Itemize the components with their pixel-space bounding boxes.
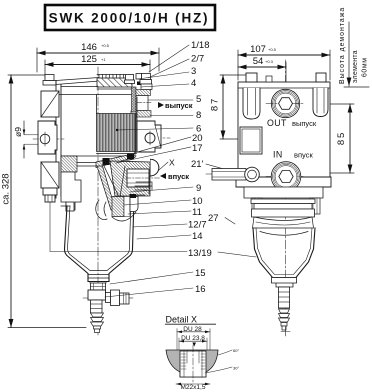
leader 15 bbox=[110, 272, 193, 284]
svg-text:Высота демонтажа: Высота демонтажа bbox=[339, 7, 346, 84]
leader 16 bbox=[105, 288, 193, 297]
svg-text:1/18: 1/18 bbox=[191, 40, 210, 51]
centerline bracket hole bbox=[33, 138, 64, 140]
label plate bbox=[240, 127, 262, 154]
svg-text:21': 21' bbox=[191, 159, 204, 170]
right bolt cartridge bbox=[313, 73, 328, 117]
svg-text:SWK 2000/10/H (HZ): SWK 2000/10/H (HZ) bbox=[49, 10, 210, 25]
leader 4 bbox=[141, 84, 189, 87]
right top bolt bbox=[140, 74, 152, 85]
svg-text:+0.5: +0.5 bbox=[101, 43, 110, 48]
outlet boss bbox=[132, 87, 152, 117]
svg-text:3: 3 bbox=[191, 66, 196, 77]
lower bolt bbox=[43, 188, 57, 202]
svg-text:ø9: ø9 bbox=[13, 127, 23, 137]
svg-text:13/19: 13/19 bbox=[188, 248, 212, 259]
float hooks bbox=[96, 200, 107, 220]
head body bbox=[238, 82, 330, 177]
svg-text:впуск: впуск bbox=[294, 151, 313, 160]
leader 20 bbox=[134, 137, 191, 153]
drain side outlet bbox=[106, 290, 130, 306]
dim 60mm removal bbox=[344, 22, 369, 87]
bowl inner right bbox=[256, 228, 312, 275]
svg-text:11: 11 bbox=[192, 207, 202, 218]
svg-text:выпуск: выпуск bbox=[292, 119, 317, 128]
svg-text:17: 17 bbox=[192, 143, 203, 154]
inner cup bbox=[112, 197, 138, 222]
bowl inner bbox=[68, 198, 132, 271]
svg-text:85: 85 bbox=[336, 131, 347, 145]
seal black u bbox=[130, 194, 137, 198]
leader 3 bbox=[138, 72, 189, 79]
drain valve upper stem bbox=[91, 283, 106, 290]
svg-text:10: 10 bbox=[192, 196, 203, 207]
centerline vertical bbox=[97, 67, 99, 336]
cover right cap bbox=[141, 84, 152, 90]
dim M22 bbox=[176, 383, 210, 385]
top left bolt bbox=[43, 75, 56, 86]
wall plate bbox=[38, 121, 57, 154]
OUT port bbox=[266, 89, 305, 117]
outlet label left bbox=[158, 101, 193, 110]
leader 2/7 bbox=[148, 59, 189, 78]
svg-text:8: 8 bbox=[196, 110, 201, 121]
body outline left wall bbox=[56, 81, 61, 199]
banjo bolt bbox=[212, 167, 259, 182]
leader 11 bbox=[128, 211, 191, 214]
svg-text:IN: IN bbox=[273, 150, 283, 160]
leader 27 bbox=[225, 218, 235, 225]
svg-text:M22x1,5: M22x1,5 bbox=[181, 384, 206, 391]
svg-text:DU 28: DU 28 bbox=[183, 326, 202, 333]
upper bracket arm bbox=[41, 91, 59, 117]
dim DU23.8 bbox=[179, 338, 207, 352]
dim 87 bbox=[220, 75, 246, 139]
dim 107 bbox=[238, 50, 330, 80]
funnel bore bbox=[180, 351, 206, 377]
drain stem right bbox=[279, 287, 290, 308]
bowl outer bbox=[65, 198, 135, 282]
small vent screw bbox=[266, 76, 272, 82]
leader 5 bbox=[148, 99, 193, 101]
cone inner lines bbox=[104, 166, 125, 203]
svg-text:X: X bbox=[169, 158, 175, 168]
dim o9 bbox=[24, 121, 41, 158]
svg-text:4: 4 bbox=[191, 78, 196, 89]
svg-text:элемента: элемента bbox=[352, 50, 359, 83]
leader 6 bbox=[117, 128, 193, 130]
seal black right bbox=[127, 154, 134, 160]
svg-text:146: 146 bbox=[81, 42, 97, 53]
left lower wall hatch bbox=[61, 156, 77, 172]
drain lower stem bbox=[91, 300, 103, 313]
leader 13/19 bbox=[50, 202, 256, 257]
svg-text:+0.3: +0.3 bbox=[265, 59, 274, 64]
svg-text:107: 107 bbox=[250, 44, 266, 55]
head bottom flange bbox=[236, 177, 331, 187]
svg-text:ca. 328: ca. 328 bbox=[1, 173, 12, 204]
clamp screws left bbox=[252, 198, 262, 215]
center cross bottom bbox=[281, 327, 290, 336]
seal black top bbox=[137, 82, 141, 86]
head top bar bbox=[238, 87, 330, 89]
deflector slanted band bbox=[96, 154, 135, 168]
title box bbox=[45, 5, 215, 30]
bore lines bbox=[184, 351, 202, 377]
lid slanted top bbox=[56, 78, 99, 85]
bowl body right bbox=[253, 228, 315, 278]
bowl rim right detail bbox=[134, 182, 152, 195]
tiny notes bbox=[233, 348, 239, 371]
lid hatched strip bbox=[97, 75, 132, 90]
leader 9 bbox=[130, 187, 193, 192]
centerline vertical right bbox=[285, 60, 287, 330]
body right wall bbox=[135, 97, 137, 153]
svg-text:Detail X: Detail X bbox=[166, 315, 198, 325]
leader 10 bbox=[124, 200, 191, 205]
svg-text:87: 87 bbox=[210, 97, 221, 111]
drain neck bbox=[88, 275, 109, 284]
svg-text:60°: 60° bbox=[233, 348, 239, 353]
clamp strip bbox=[244, 187, 323, 198]
inlet label left bbox=[160, 172, 189, 181]
svg-text:16: 16 bbox=[195, 284, 206, 295]
dim 125 bbox=[45, 60, 150, 78]
drain valve body bbox=[88, 290, 106, 300]
svg-text:125: 125 bbox=[81, 54, 97, 65]
svg-text:27: 27 bbox=[208, 213, 219, 224]
filter element bbox=[97, 95, 137, 152]
centerline flange hole bbox=[139, 137, 170, 139]
funnel centerline bbox=[192, 345, 194, 383]
centerline drain bbox=[83, 297, 133, 299]
svg-text:15: 15 bbox=[195, 268, 206, 279]
svg-text:14: 14 bbox=[192, 231, 203, 242]
element bottom lines bbox=[61, 154, 137, 157]
bolt B bbox=[136, 74, 142, 80]
centerline banjo bbox=[206, 173, 262, 175]
IN port bbox=[266, 162, 305, 192]
svg-text:выпуск: выпуск bbox=[165, 101, 193, 110]
leader 17 bbox=[116, 147, 191, 163]
element center dot bbox=[116, 129, 118, 131]
svg-text:30°: 30° bbox=[233, 366, 239, 371]
left bolt cartridge bbox=[243, 73, 260, 119]
bowl rim connections bbox=[61, 196, 135, 206]
dim 146 bbox=[37, 48, 159, 72]
detail leaders bbox=[205, 350, 232, 373]
svg-text:OUT: OUT bbox=[267, 118, 287, 128]
text removal height bbox=[339, 7, 369, 84]
leader 21 bbox=[206, 164, 231, 171]
barbed nipple right bbox=[279, 309, 290, 330]
leader 1/18 bbox=[149, 45, 189, 72]
svg-text:DU 23,8: DU 23,8 bbox=[181, 335, 205, 342]
inlet boss hatched bbox=[110, 161, 160, 196]
svg-text:+1: +1 bbox=[101, 57, 106, 62]
svg-text:60мм: 60мм bbox=[362, 57, 369, 77]
funnel body bbox=[166, 350, 218, 377]
leader 8 bbox=[150, 115, 193, 117]
callout numbers bbox=[188, 40, 219, 295]
dim DU28 bbox=[177, 329, 210, 350]
svg-text:2/7: 2/7 bbox=[191, 54, 204, 65]
clamp screws right bbox=[310, 198, 320, 214]
leader 14 bbox=[137, 235, 191, 239]
svg-text:впуск: впуск bbox=[168, 172, 189, 181]
seal black left bbox=[103, 158, 110, 165]
port labels bbox=[267, 118, 317, 160]
svg-text:9: 9 bbox=[196, 183, 201, 194]
body top lines bbox=[56, 87, 136, 95]
dim 85 bbox=[300, 104, 354, 173]
left step blocks bbox=[61, 172, 81, 211]
svg-text:+0.5: +0.5 bbox=[268, 47, 277, 52]
ball bbox=[151, 159, 159, 176]
dim ca.328 bbox=[8, 75, 86, 328]
leader 12/7 bbox=[133, 224, 187, 227]
X leader bbox=[159, 162, 168, 170]
lower bracket arm bbox=[41, 162, 59, 188]
swirl cone hatched bbox=[97, 166, 116, 210]
svg-text:12/7: 12/7 bbox=[188, 220, 207, 231]
right flange bbox=[137, 121, 161, 152]
svg-text:5: 5 bbox=[196, 94, 201, 105]
barbed nipple bbox=[91, 313, 104, 333]
svg-text:54: 54 bbox=[253, 56, 264, 67]
dim 54 bbox=[238, 62, 286, 92]
center bolt bbox=[125, 75, 135, 84]
bowl collar rings bbox=[251, 199, 315, 228]
